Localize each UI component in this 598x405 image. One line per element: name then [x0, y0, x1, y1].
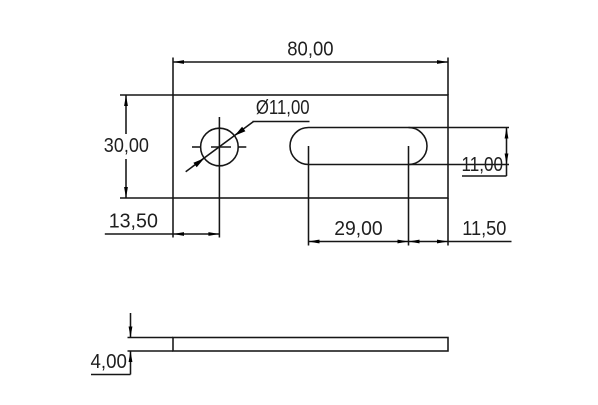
svg-text:Ø11,00: Ø11,00 — [256, 97, 310, 119]
dimension 4,00 text — [91, 351, 127, 373]
dimension 13,50 text — [109, 210, 158, 232]
leader Ø11,00 text — [256, 97, 310, 119]
dimension 11,50 line — [409, 241, 512, 243]
dimension 11,50 arrow right — [437, 240, 448, 244]
dimension 4,00 extension line top — [128, 337, 174, 339]
dimension 30,00 line lower segment — [125, 159, 127, 198]
dimension 13,50 arrow left — [173, 232, 184, 236]
dimension 11,50 arrow left — [409, 240, 420, 244]
dimension 29,00 line — [309, 241, 409, 243]
dimension 30,00 extension line top — [120, 94, 173, 96]
dimension 80,00 text — [287, 39, 333, 61]
dimension 4,00 underline — [91, 374, 131, 376]
dimension 29,00 arrow left — [309, 240, 320, 244]
hole horizontal centerline — [192, 146, 246, 148]
dimension 13,50 line — [105, 233, 220, 235]
dimension 80,00 extension line right — [447, 58, 449, 96]
slot obround 29x11 — [290, 128, 427, 165]
dimension 29,00 arrow right — [398, 240, 409, 244]
dimension 29,00 text — [334, 218, 383, 240]
dimension 80,00 extension line left — [172, 58, 174, 96]
svg-text:80,00: 80,00 — [287, 39, 333, 61]
svg-text:11,00: 11,00 — [462, 154, 504, 176]
svg-text:30,00: 30,00 — [104, 135, 149, 157]
dimension 11,00 extension line top — [409, 127, 510, 129]
dimension 29,00 extension line left — [308, 146, 310, 246]
dimension 80,00 line — [173, 61, 448, 63]
hole circle Ø11 — [201, 128, 239, 166]
dimension 11,00 extension line bottom — [409, 164, 510, 166]
dimension 4,00 arrow top — [129, 327, 133, 338]
side view plate outline 80x4 — [173, 338, 448, 352]
svg-text:11,50: 11,50 — [462, 218, 506, 240]
dimension 11,00 text — [462, 154, 504, 176]
dimension 13,50 arrow right — [208, 232, 219, 236]
hole vertical centerline — [218, 117, 220, 238]
dimension 4,00 line upper segment — [130, 313, 132, 338]
dimension 30,00 line upper segment — [125, 95, 127, 134]
leader Ø11,00 diagonal line — [186, 122, 254, 172]
dimension 29,00 extension line right — [408, 146, 410, 246]
dimension 30,00 arrow top — [124, 95, 128, 106]
svg-text:29,00: 29,00 — [334, 218, 383, 240]
dimension 4,00 arrow bottom — [129, 351, 133, 362]
svg-text:13,50: 13,50 — [109, 210, 158, 232]
leader Ø11,00 arrow lower-left — [193, 158, 204, 167]
plate outline (top view 80x30) — [173, 95, 448, 198]
leader Ø11,00 underline — [253, 121, 310, 123]
dimension 30,00 text — [104, 135, 149, 157]
dimension 11,00 line — [506, 128, 508, 177]
dimension 11,00 underline — [462, 175, 507, 177]
dimension 11,50 extension line right — [447, 198, 449, 246]
dimension 30,00 arrow bottom — [124, 187, 128, 198]
dimension 11,50 text — [462, 218, 506, 240]
leader Ø11,00 arrow upper-right — [235, 127, 246, 136]
dimension 80,00 arrow right — [437, 60, 448, 64]
svg-text:4,00: 4,00 — [91, 351, 127, 373]
dimension 30,00 extension line bottom — [120, 197, 173, 199]
dimension 11,00 arrow bottom — [505, 154, 509, 165]
dimension 80,00 arrow left — [173, 60, 184, 64]
dimension 4,00 extension line bottom — [128, 350, 174, 352]
dimension 13,50 extension line left — [172, 198, 174, 238]
dimension 11,00 arrow top — [505, 128, 509, 139]
dimension 4,00 line lower segment — [130, 351, 132, 375]
